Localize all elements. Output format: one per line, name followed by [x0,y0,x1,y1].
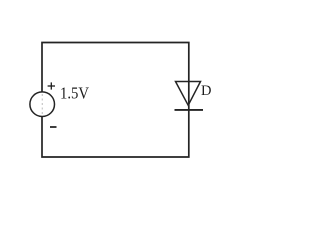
svg-text:D: D [201,83,211,99]
svg-text:1.5V: 1.5V [60,83,90,102]
